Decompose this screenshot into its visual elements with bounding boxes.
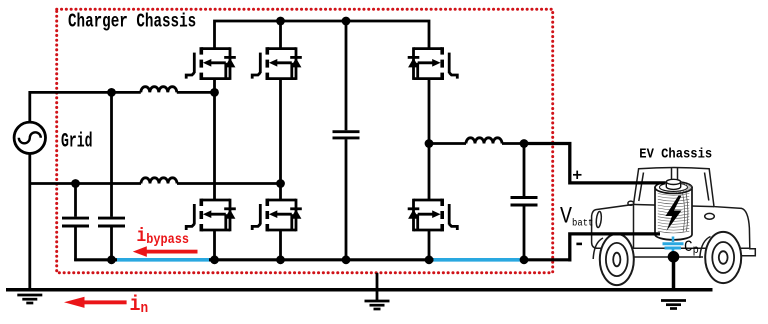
svg-text:in: in xyxy=(130,292,149,318)
svg-text:ibypass: ibypass xyxy=(137,226,190,248)
svg-text:Grid: Grid xyxy=(61,131,92,153)
svg-text:Charger Chassis: Charger Chassis xyxy=(68,12,196,33)
svg-text:Vbatt: Vbatt xyxy=(560,203,593,230)
svg-text:EV Chassis: EV Chassis xyxy=(639,146,712,162)
